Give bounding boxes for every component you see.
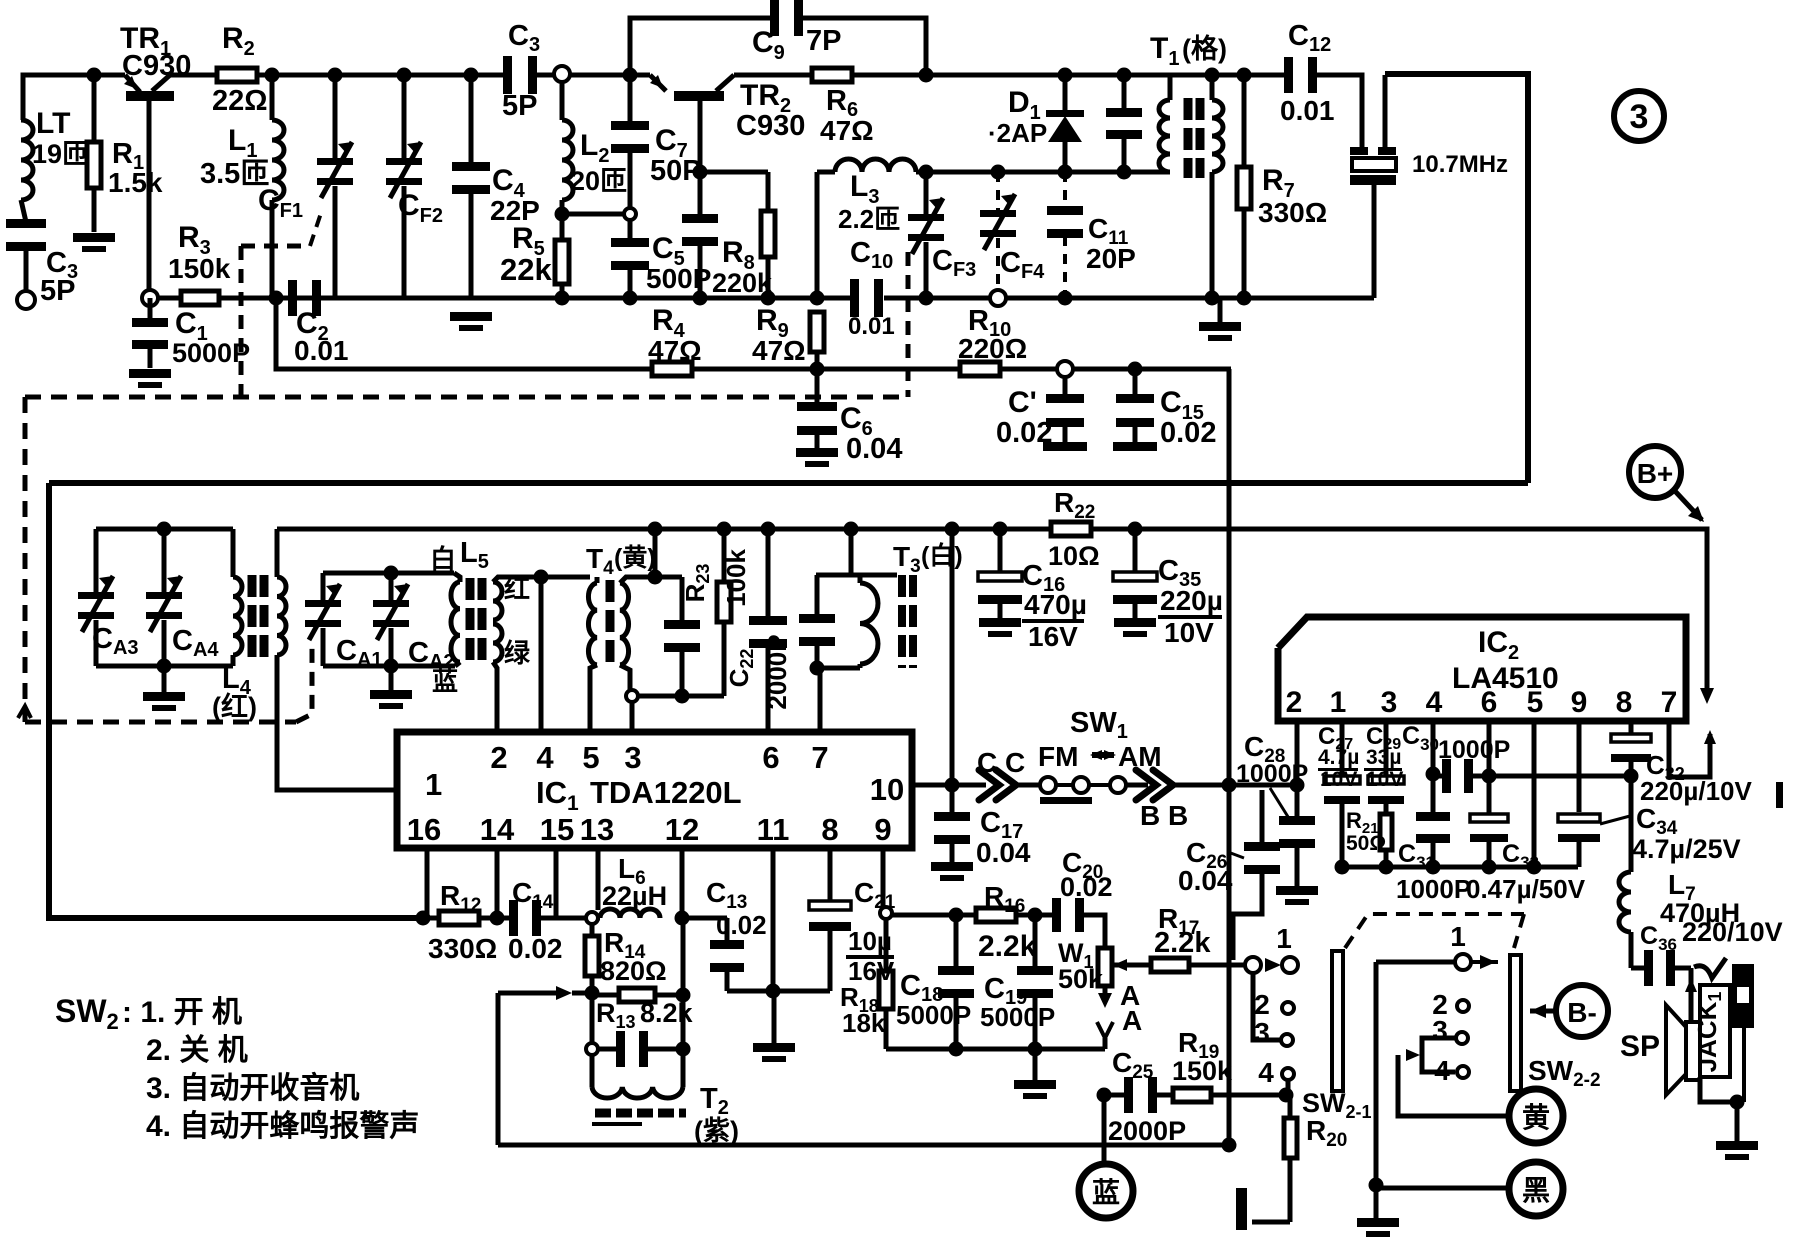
svg-text:4: 4	[1258, 1057, 1274, 1088]
svg-text:10µ: 10µ	[848, 926, 892, 956]
capacitor C1	[148, 298, 153, 322]
svg-text:22Ω: 22Ω	[212, 85, 268, 117]
svg-text:3: 3	[1254, 1017, 1270, 1048]
inductor L6	[586, 912, 598, 924]
capacitor C21	[828, 848, 833, 903]
variable capacitor CA4	[162, 529, 167, 592]
wire top rail left segment	[23, 75, 94, 120]
svg-text:12: 12	[665, 812, 699, 847]
svg-text:4: 4	[1426, 686, 1443, 719]
svg-text:10: 10	[870, 772, 904, 807]
wire top rail R6-C12	[850, 73, 1291, 78]
wire jack ground	[1700, 1077, 1737, 1141]
wire bottom rail tuner	[142, 290, 158, 306]
svg-text:9: 9	[874, 812, 891, 847]
svg-text:2000P: 2000P	[762, 634, 792, 709]
ground tuner rail	[1218, 298, 1223, 322]
dashed tuner box bottom edge	[25, 720, 296, 725]
wire W1 bottom to A	[1103, 986, 1108, 1002]
wire pin9 node	[881, 848, 886, 906]
wire T3 to pin7	[818, 668, 823, 732]
capacitor C6	[815, 369, 820, 406]
svg-text:SP: SP	[1620, 1030, 1660, 1063]
svg-text:7P: 7P	[806, 25, 841, 57]
svg-text:10Ω: 10Ω	[1048, 541, 1100, 571]
svg-text:1: 1	[1276, 923, 1292, 954]
svg-text:1: 1	[425, 767, 442, 802]
svg-text:220k: 220k	[712, 268, 773, 298]
capacitor T3 tank cap	[815, 575, 820, 616]
svg-text:0.02: 0.02	[1160, 417, 1216, 449]
wire CA box top	[96, 527, 233, 532]
svg-text:9: 9	[1571, 686, 1588, 719]
connector yellow terminal	[1509, 1089, 1563, 1143]
capacitor C19	[1028, 908, 1043, 923]
svg-text:C C: C C	[977, 747, 1025, 778]
wire C9 top loop	[630, 18, 777, 75]
svg-text:黑: 黑	[1522, 1175, 1550, 1206]
potentiometer W1	[1098, 948, 1112, 986]
capacitor C4	[464, 68, 479, 83]
svg-text:22µH: 22µH	[602, 881, 667, 911]
wire pin10 out	[912, 783, 986, 788]
transformer T4	[541, 575, 590, 580]
resistor R2	[217, 68, 257, 82]
svg-text:0.02: 0.02	[508, 933, 563, 964]
svg-text:5000P: 5000P	[896, 1000, 971, 1030]
resistor R5	[560, 214, 565, 240]
wire top rail C12 right	[1311, 75, 1362, 147]
transistor TR2	[674, 91, 724, 101]
wire main rail B plus feed	[49, 480, 1528, 486]
connector C C arrows	[979, 770, 1016, 800]
capacitor T2 coupling cap	[586, 1043, 598, 1055]
resistor R7	[1237, 68, 1252, 83]
svg-text:0.02: 0.02	[996, 417, 1052, 449]
wire SW2-2 bracket	[1422, 1038, 1455, 1072]
capacitor C12	[1284, 57, 1293, 93]
ground R1	[73, 233, 115, 242]
wire filter feedback loop	[1385, 74, 1528, 483]
svg-text:TDA1220L: TDA1220L	[590, 775, 742, 810]
capacitor C30	[1433, 774, 1444, 779]
svg-text:18k: 18k	[842, 1008, 886, 1038]
wire detector common	[886, 1047, 1105, 1052]
resistor R6	[812, 68, 852, 82]
transformer L5	[454, 573, 460, 582]
inductor L2	[554, 66, 570, 82]
wire CA1 box bottom	[323, 664, 455, 669]
svg-text:1000P: 1000P	[1236, 760, 1308, 788]
wire pin8 stub	[1629, 721, 1634, 737]
inductor L3	[817, 170, 835, 175]
svg-text:3. 自动开收音机: 3. 自动开收音机	[146, 1072, 359, 1105]
wire top rail TR2-R6	[734, 73, 814, 78]
capacitor C10	[850, 279, 859, 317]
ground C19	[1033, 1049, 1038, 1080]
svg-text:0.02: 0.02	[716, 910, 767, 940]
switch SW2-1	[1113, 963, 1151, 968]
resistor R21	[1384, 800, 1389, 814]
wire jack input	[1689, 968, 1694, 1022]
svg-text:10V: 10V	[1366, 768, 1403, 791]
pin12 stub	[680, 848, 685, 918]
svg-text:14: 14	[480, 812, 515, 847]
svg-text:5000P: 5000P	[980, 1002, 1055, 1032]
dashed linkage CF gang	[239, 246, 244, 397]
connector B B arrows	[1125, 783, 1148, 788]
capacitor C2	[288, 280, 297, 316]
svg-text:220Ω: 220Ω	[958, 333, 1027, 364]
svg-text:5000P: 5000P	[172, 338, 250, 368]
capacitor C13	[682, 916, 727, 921]
variable capacitor CF4 dashed	[991, 165, 1006, 180]
wire CA1 box top	[323, 571, 454, 576]
svg-text:1000P: 1000P	[1438, 736, 1510, 764]
svg-text:8.2k: 8.2k	[640, 998, 694, 1028]
dashed linkage CF3	[906, 252, 911, 397]
svg-text:47Ω: 47Ω	[648, 335, 702, 366]
svg-text:47Ω: 47Ω	[820, 115, 874, 146]
capacitor C29	[1384, 721, 1389, 775]
svg-text:50k: 50k	[1058, 964, 1104, 994]
svg-text:0.01: 0.01	[848, 313, 895, 340]
capacitor C3 antenna	[6, 219, 46, 228]
ground SW2-2	[1374, 1188, 1379, 1218]
svg-text:22k: 22k	[500, 252, 552, 287]
svg-text:16V: 16V	[848, 956, 895, 986]
svg-text:C930: C930	[736, 110, 805, 142]
wire W1 wiper out	[1113, 963, 1151, 968]
svg-text:3: 3	[1381, 686, 1398, 719]
svg-text:3: 3	[1630, 98, 1649, 136]
svg-text:6: 6	[762, 740, 779, 775]
svg-text:4.7µ/25V: 4.7µ/25V	[1632, 834, 1741, 864]
resistor R22	[1051, 522, 1091, 536]
label page number 3	[1614, 91, 1664, 141]
svg-text:7: 7	[811, 740, 828, 775]
capacitor C22	[761, 522, 776, 537]
wire left vertical	[49, 483, 423, 918]
capacitor C31	[1431, 776, 1436, 814]
capacitor C8	[698, 172, 703, 218]
svg-text:33µ: 33µ	[1366, 746, 1401, 769]
variable capacitor CA1	[321, 573, 326, 600]
capacitor C15	[1128, 362, 1143, 377]
svg-text:FM: FM	[1038, 741, 1078, 772]
wire IC1 bottom rail	[423, 916, 441, 921]
svg-text:7: 7	[1661, 686, 1678, 719]
svg-text:白: 白	[430, 544, 456, 574]
wire bias line	[276, 298, 654, 369]
capacitor C-prime	[1057, 361, 1073, 377]
wire pin6 stub	[1487, 721, 1492, 776]
switch SW1	[1040, 777, 1056, 793]
svg-text:150k: 150k	[1172, 1056, 1233, 1086]
capacitor T1 primary cap	[1117, 68, 1132, 83]
svg-text:220µ/10V: 220µ/10V	[1640, 776, 1753, 806]
variable capacitor CF1	[328, 68, 343, 83]
capacitor C14	[509, 900, 518, 936]
svg-text:0.02: 0.02	[1060, 872, 1113, 902]
wire ground rail IC2	[1342, 865, 1578, 870]
left dashed edge caret	[18, 706, 31, 718]
svg-text:2000P: 2000P	[1108, 1116, 1186, 1146]
resistor R8	[766, 172, 771, 212]
connector black terminal	[1376, 1186, 1508, 1191]
power B- terminal	[1530, 1004, 1546, 1018]
svg-text:10V: 10V	[1164, 617, 1214, 648]
ground CA2	[389, 666, 394, 690]
svg-text:3: 3	[624, 740, 641, 775]
capacitor C20	[1052, 898, 1061, 932]
svg-text:220/10V: 220/10V	[1682, 917, 1783, 947]
svg-text:B-: B-	[1567, 997, 1597, 1028]
capacitor C28	[1295, 785, 1300, 818]
svg-text:3: 3	[1432, 1015, 1448, 1046]
svg-text:JACK1: JACK1	[1692, 992, 1725, 1073]
capacitor C25	[1097, 1088, 1112, 1103]
transistor TR1	[126, 91, 174, 101]
variable capacitor CF2	[397, 68, 412, 83]
svg-text:5P: 5P	[502, 90, 537, 122]
resistor R14	[590, 924, 595, 936]
capacitor C3 5P top	[503, 56, 512, 94]
wire TR2 emitter	[698, 101, 703, 172]
svg-text:100k: 100k	[721, 549, 751, 607]
svg-text:330Ω: 330Ω	[1258, 197, 1327, 228]
svg-text:(白): (白)	[921, 541, 963, 570]
transformer T2	[590, 1055, 595, 1087]
pin13 stub	[596, 848, 601, 910]
power B+ terminal	[1629, 446, 1681, 498]
transformer T1	[1168, 75, 1173, 100]
dashed tuner box left edge	[23, 397, 28, 722]
svg-text:绿: 绿	[504, 638, 531, 668]
svg-text:2.2匝: 2.2匝	[838, 204, 900, 234]
capacitor C18	[949, 908, 964, 923]
svg-text:8: 8	[1616, 686, 1633, 719]
capacitor C5	[628, 220, 633, 242]
svg-text:蓝: 蓝	[432, 666, 458, 696]
resistor R23	[717, 522, 732, 537]
capacitor C16	[993, 522, 1008, 537]
svg-text:0.01: 0.01	[294, 335, 349, 366]
T3 winding	[858, 575, 863, 583]
resistor R12	[439, 911, 479, 925]
ground R20	[1252, 1220, 1290, 1225]
wire tuner node	[926, 170, 1170, 175]
ceramic filter 10.7MHz	[1360, 147, 1365, 155]
svg-text:50Ω: 50Ω	[1346, 832, 1386, 855]
resistor R19	[1173, 1088, 1211, 1102]
wire SW2-1 bracket	[1253, 971, 1280, 1040]
wire top rail R2-C3	[255, 73, 506, 78]
svg-text:0.04: 0.04	[976, 837, 1031, 868]
diode D1	[1058, 68, 1073, 83]
svg-text:2.2k: 2.2k	[1154, 927, 1211, 959]
svg-text:黄: 黄	[1522, 1102, 1550, 1133]
svg-text:47Ω: 47Ω	[752, 335, 806, 366]
svg-text:2: 2	[1254, 989, 1270, 1020]
svg-text:1: 1	[1450, 921, 1466, 952]
wire pin4 stub	[1431, 721, 1436, 774]
svg-text:蓝: 蓝	[1092, 1177, 1120, 1208]
inductor L7	[1629, 776, 1634, 872]
dashed linkage SW2	[1345, 914, 1524, 948]
capacitor C26	[1260, 790, 1265, 845]
svg-text:13: 13	[580, 812, 614, 847]
resistor R3	[181, 291, 219, 305]
svg-text:·2AP: ·2AP	[988, 118, 1047, 148]
resistor R20	[1284, 1118, 1297, 1158]
wire pin2 stub	[1295, 721, 1300, 785]
svg-text:1: 1	[1330, 686, 1347, 719]
resistor R10	[960, 362, 1000, 376]
IC IC1 TDA1220L box	[397, 732, 912, 848]
svg-text:1000P: 1000P	[1396, 874, 1471, 904]
wire CA box bottom	[96, 664, 233, 669]
svg-text:0.47µ/50V: 0.47µ/50V	[1466, 874, 1586, 904]
resistor R13	[592, 993, 620, 998]
resistor R1	[87, 68, 102, 83]
node antenna terminal	[17, 291, 35, 309]
svg-text:B B: B B	[1140, 800, 1188, 831]
svg-text:20P: 20P	[1086, 243, 1136, 274]
capacitor C9	[770, 0, 779, 36]
wire C30 rail	[1489, 774, 1631, 779]
svg-text:0.04: 0.04	[1178, 865, 1233, 896]
switch SW2-2	[1376, 960, 1456, 965]
svg-text:C': C'	[1008, 386, 1037, 419]
svg-text:B+: B+	[1637, 458, 1674, 489]
transformer T3	[816, 573, 823, 578]
wire C13 common	[727, 989, 830, 994]
capacitor C34	[1558, 814, 1600, 822]
svg-text:红: 红	[504, 574, 530, 604]
capacitor C33	[1487, 776, 1492, 814]
svg-text:4.7µ: 4.7µ	[1318, 746, 1359, 769]
dashed linkage CA1	[296, 644, 312, 722]
pin15 stub	[554, 848, 559, 918]
svg-text:4. 自动开蜂鸣报警声: 4. 自动开蜂鸣报警声	[146, 1109, 419, 1143]
wire L5 tap to pin4	[534, 570, 549, 585]
wire IF supply rail	[277, 527, 1054, 532]
svg-text:0.04: 0.04	[846, 433, 902, 465]
wire yellow branch	[1406, 1049, 1420, 1061]
wire T3 secondary line	[945, 522, 960, 537]
resistor R16	[976, 908, 1016, 922]
svg-text:11: 11	[757, 812, 790, 847]
capacitor T4 tank cap	[680, 577, 685, 622]
svg-text:1.5k: 1.5k	[108, 167, 163, 198]
capacitor C11 dashed	[1063, 172, 1067, 208]
inductor L1	[265, 68, 280, 83]
svg-text:5: 5	[1527, 686, 1544, 719]
svg-text:A: A	[1122, 1005, 1142, 1036]
variable capacitor CA2	[389, 573, 394, 600]
capacitor C35	[1128, 522, 1143, 537]
svg-text:2. 关 机: 2. 关 机	[146, 1034, 248, 1067]
wire pin5 stub	[1532, 721, 1537, 867]
svg-text:8: 8	[821, 812, 838, 847]
IC IC2 LA4510 box	[1278, 617, 1686, 721]
speaker SP	[1686, 1022, 1700, 1080]
wire feedback box	[498, 991, 556, 996]
svg-text:(紫): (紫)	[694, 1116, 739, 1146]
wire T4 bottom	[638, 694, 724, 699]
jack JACK1	[1694, 958, 1726, 978]
transformer L4	[231, 529, 236, 577]
wire pin9 stub	[1577, 721, 1582, 812]
variable capacitor CA3	[94, 529, 99, 592]
svg-text:16: 16	[407, 812, 441, 847]
wire T4 secondary top to rail	[648, 522, 663, 537]
ground C13 node	[772, 991, 777, 1043]
svg-text:470µ: 470µ	[1024, 589, 1087, 620]
svg-text:20匝: 20匝	[570, 166, 627, 196]
capacitor C32	[1611, 734, 1651, 742]
capacitor C17	[950, 785, 955, 814]
pin11 stub	[771, 848, 776, 991]
svg-text:10V: 10V	[1320, 768, 1357, 791]
wire top rail C3-TR2	[534, 73, 650, 78]
resistor R9	[810, 291, 825, 306]
capacitor C27	[1340, 721, 1345, 775]
variable capacitor CF3	[919, 165, 934, 180]
wire B line vertical	[1227, 369, 1232, 1145]
svg-text:C930: C930	[122, 50, 191, 82]
svg-text:150k: 150k	[168, 253, 231, 284]
svg-text:: 1. 开 机: : 1. 开 机	[122, 996, 242, 1029]
wire pin12 column down	[681, 918, 686, 1049]
svg-text:15: 15	[540, 812, 574, 847]
connector blue terminal	[1102, 1095, 1107, 1164]
svg-text:2.2k: 2.2k	[978, 930, 1037, 963]
svg-text:(红): (红)	[212, 691, 257, 722]
ground C4	[450, 312, 492, 321]
resistor R4	[652, 362, 692, 376]
svg-text:10.7MHz: 10.7MHz	[1412, 151, 1508, 178]
svg-text:2: 2	[1286, 686, 1303, 719]
resistor R18	[884, 919, 889, 972]
svg-text:19匝: 19匝	[32, 139, 89, 169]
wire SW2-2 left down	[1374, 962, 1379, 1185]
svg-text:330Ω: 330Ω	[428, 933, 497, 964]
svg-text:820Ω: 820Ω	[600, 956, 667, 986]
capacitor C7	[628, 75, 633, 125]
ground CA4	[162, 666, 167, 692]
svg-text:(格): (格)	[1182, 34, 1227, 64]
svg-text:4: 4	[536, 740, 554, 775]
wire audio bottom rail	[498, 1143, 1229, 1148]
svg-text:(黄): (黄)	[614, 544, 656, 572]
dashed tuner box top edge	[25, 395, 908, 400]
svg-text:220µ: 220µ	[1160, 585, 1223, 616]
svg-text:0.01: 0.01	[1280, 95, 1335, 126]
capacitor C36	[1631, 966, 1645, 971]
svg-text:6: 6	[1481, 686, 1498, 719]
svg-text:5P: 5P	[40, 275, 75, 307]
wire pin7 to B+	[1669, 721, 1710, 777]
pin16 stub	[425, 848, 430, 918]
wire C20 to W1	[1082, 915, 1105, 948]
inductor LT	[21, 120, 33, 200]
pin14 stub	[495, 848, 500, 918]
svg-text:5: 5	[582, 740, 599, 775]
wire SW2-1 pos4 down	[1286, 1080, 1291, 1095]
svg-text:LT: LT	[36, 107, 70, 140]
